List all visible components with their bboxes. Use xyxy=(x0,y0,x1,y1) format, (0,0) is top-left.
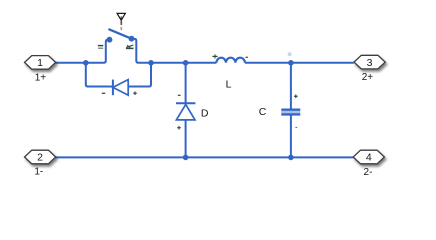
wire: switch right lead down to node B xyxy=(132,39,152,63)
svg-text:2: 2 xyxy=(37,152,43,164)
switch right terminal annotation glyph xyxy=(126,45,134,48)
capacitor C plates xyxy=(281,109,300,116)
svg-text:2+: 2+ xyxy=(362,72,374,83)
wire: inductor to port 3 xyxy=(245,62,354,64)
wire: capacitor down to bottom rail xyxy=(290,115,292,157)
control port triangle xyxy=(117,13,125,20)
anti-parallel diode plus mark xyxy=(133,91,137,95)
wire: node B to inductor xyxy=(151,62,216,64)
port 3 hexagon xyxy=(354,55,385,69)
port 2 hexagon xyxy=(25,150,56,164)
svg-text:1-: 1- xyxy=(34,167,43,178)
wire: diode loop left leg (node A down and right) xyxy=(86,63,112,87)
svg-text:1+: 1+ xyxy=(35,73,47,84)
capacitor minus mark xyxy=(295,126,297,128)
diode D cathode bar xyxy=(176,102,195,104)
wire: diode loop right leg (up to node B) xyxy=(128,63,151,87)
wire: node A to switch left lead (up) xyxy=(86,40,110,63)
diode D plus mark xyxy=(177,126,181,130)
svg-text:C: C xyxy=(259,106,267,118)
capacitor plus mark xyxy=(294,95,298,99)
node C junction dot (diode top) xyxy=(183,60,189,66)
node B junction dot xyxy=(148,60,154,66)
control dashed line dash 2 xyxy=(120,27,122,30)
svg-text:3: 3 xyxy=(367,57,373,69)
faint dot above capacitor node xyxy=(288,52,292,56)
wire: diode D down to bottom rail xyxy=(185,120,187,157)
anti-parallel diode minus mark xyxy=(102,92,105,94)
anti-parallel diode triangle xyxy=(113,80,128,96)
node A junction dot xyxy=(83,60,89,66)
switch Q1 right terminal dot xyxy=(129,36,135,42)
junction dot bottom diode xyxy=(183,155,189,161)
diode D triangle (points up) xyxy=(176,104,195,120)
switch left terminal annotation glyph xyxy=(98,45,103,49)
wire: node D down to capacitor xyxy=(290,63,292,109)
port 4 hexagon xyxy=(353,150,384,164)
inductor L coil xyxy=(216,58,245,63)
anti-parallel diode (points left): cathode bar xyxy=(112,80,114,96)
svg-text:1: 1 xyxy=(37,57,43,69)
svg-text:D: D xyxy=(201,107,209,119)
inductor plus mark xyxy=(212,54,217,58)
wire: port 1 to node A (top left) xyxy=(56,62,86,64)
port 1 hexagon xyxy=(25,56,56,70)
diode D minus mark xyxy=(178,94,181,96)
inductor minus mark xyxy=(246,56,248,58)
svg-text:2-: 2- xyxy=(364,167,373,178)
svg-text:4: 4 xyxy=(366,152,372,164)
wire: bottom rail port 2 to port 4 xyxy=(56,156,354,158)
svg-text:L: L xyxy=(226,79,232,91)
node D junction dot (capacitor top) xyxy=(288,60,294,66)
switch Q1 blade (open) xyxy=(109,29,131,38)
control dashed line dash 1 xyxy=(120,21,122,25)
wire: node C down to diode D xyxy=(185,63,187,103)
switch Q1 left terminal dot xyxy=(107,37,113,43)
junction dot bottom capacitor xyxy=(288,155,294,161)
